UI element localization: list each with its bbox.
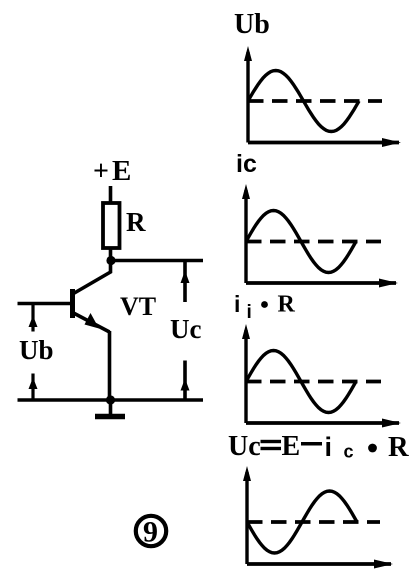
svg-text:c: c: [344, 442, 354, 462]
transistor VT collector lead: [74, 261, 111, 294]
transistor VT base bar: [70, 289, 75, 318]
svg-text:Ub: Ub: [19, 335, 54, 365]
ground symbol: [95, 400, 125, 417]
output Uc lower arrow: [181, 361, 190, 401]
svg-text:E: E: [112, 155, 131, 187]
wire: base lead to left rail: [18, 302, 71, 306]
svg-text:9: 9: [143, 516, 158, 549]
plot3 (ii*R) sine waveform: [246, 351, 356, 413]
plot1 (Ub) dashed bias level: [248, 99, 382, 103]
resistor R body: [103, 203, 120, 248]
svg-text:ic: ic: [236, 150, 257, 178]
svg-text:R: R: [278, 292, 296, 318]
plot1 (Ub) y-axis: [244, 46, 252, 143]
wire from resistor to collector node: [109, 248, 113, 261]
label Uc=E-ic*R (plot4): [228, 431, 409, 463]
node: collector junction dot: [106, 256, 115, 265]
figure number 9 circled: [136, 516, 166, 549]
input Ub lower arrow: [29, 374, 38, 401]
wire from +E to resistor R: [109, 186, 113, 204]
plot3 (ii*R) y-axis: [242, 324, 250, 423]
plot2 (ic) dashed bias level: [246, 240, 381, 244]
plot4 (Uc) y-axis: [243, 466, 251, 564]
wire: bottom rail: [18, 398, 204, 402]
label ii*R (plot3): [234, 291, 296, 323]
svg-text:R: R: [388, 432, 409, 463]
svg-text:+: +: [93, 156, 109, 187]
node: emitter/ground junction dot: [106, 395, 115, 404]
plot2 (ic) sine waveform: [246, 211, 356, 273]
plot4 (Uc) sine waveform: [247, 491, 357, 553]
plot1 (Ub) x-axis: [248, 138, 401, 147]
svg-text:VT: VT: [120, 292, 156, 321]
svg-text:i: i: [234, 291, 240, 317]
wire: emitter down to ground rail: [108, 331, 112, 400]
svg-text:i: i: [325, 432, 333, 462]
plot1 (Ub) sine waveform: [248, 71, 359, 132]
svg-text:i: i: [247, 302, 252, 323]
output Uc upper arrow: [181, 261, 190, 302]
svg-text:Uc: Uc: [170, 314, 201, 344]
wire: top rail from collector node to Uc branch: [111, 259, 203, 263]
svg-text:Ub: Ub: [234, 9, 270, 40]
plot3 (ii*R) x-axis: [246, 419, 401, 428]
plot3 (ii*R) dashed bias level: [246, 380, 381, 384]
transistor VT emitter lead with arrow: [74, 313, 110, 332]
plot4 (Uc) dashed bias level: [247, 520, 380, 524]
input Ub upper arrow: [29, 304, 38, 332]
svg-text:Uc: Uc: [228, 431, 261, 462]
plot2 (ic) x-axis: [246, 279, 398, 288]
plot2 (ic) y-axis: [242, 184, 250, 283]
plot4 (Uc) x-axis: [247, 560, 393, 569]
svg-text:R: R: [126, 207, 146, 237]
svg-text:E: E: [282, 431, 301, 462]
